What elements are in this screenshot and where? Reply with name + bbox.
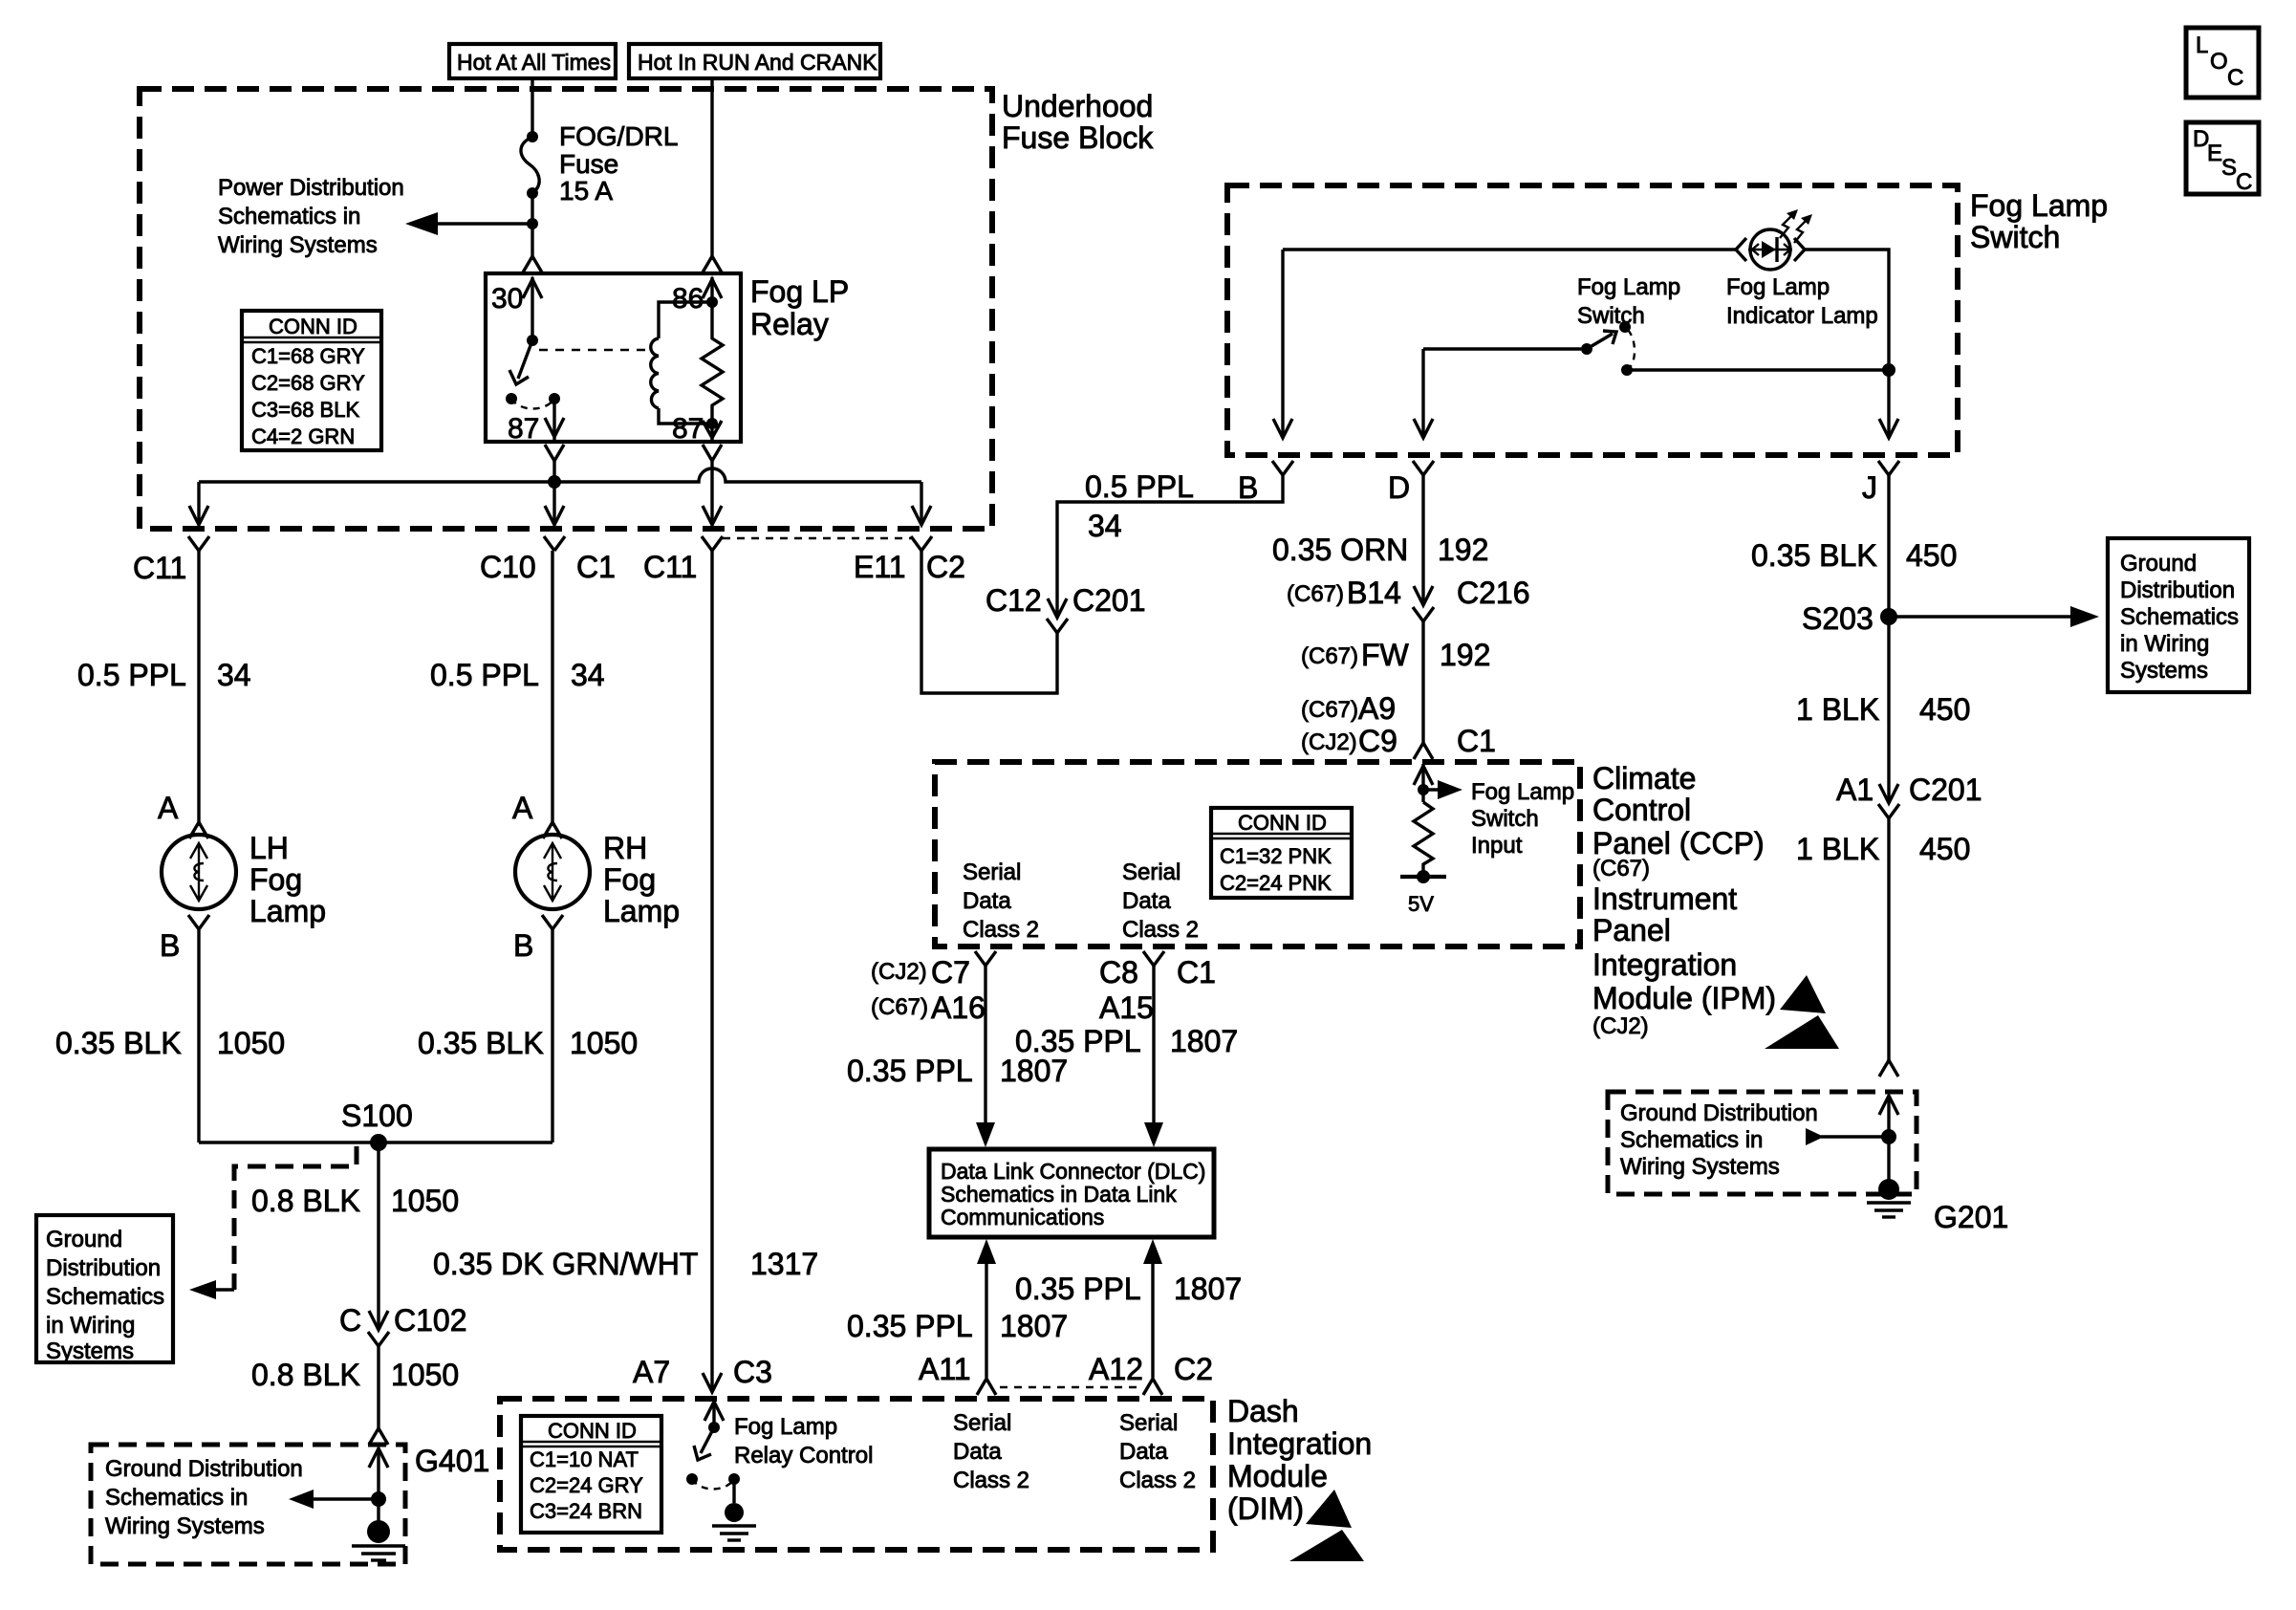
svg-text:1050: 1050 <box>391 1184 459 1218</box>
svg-text:A7: A7 <box>633 1355 670 1389</box>
svg-text:Input: Input <box>1471 833 1523 859</box>
svg-text:Class 2: Class 2 <box>1119 1468 1196 1493</box>
terminal A (RH) <box>512 791 562 838</box>
connector chevron above G401 box <box>369 1428 388 1445</box>
svg-text:L: L <box>2196 33 2208 58</box>
connector A12 / C2 <box>1089 1352 1213 1395</box>
wire bus right drop with down arrow at E11 <box>912 482 931 525</box>
svg-text:192: 192 <box>1438 533 1488 567</box>
svg-text:Class 2: Class 2 <box>963 917 1039 943</box>
switch lever with arrowhead <box>1587 331 1616 349</box>
svg-text:C4=2 GRN: C4=2 GRN <box>251 424 355 448</box>
label Fog Lamp Switch (internal) <box>1577 274 1680 329</box>
svg-text:Systems: Systems <box>46 1338 134 1364</box>
svg-text:C201: C201 <box>1909 772 1982 807</box>
dashed actuation link switch-to-coil <box>539 349 649 351</box>
wire 192 below C216 <box>1421 621 1424 743</box>
arrow branch (points toward wire) <box>1806 1128 1889 1145</box>
relay switch contact right <box>549 393 560 404</box>
svg-text:Fog Lamp: Fog Lamp <box>734 1414 837 1440</box>
wire 0.35 ORN 192 from D <box>1414 475 1433 605</box>
svg-text:Fog Lamp: Fog Lamp <box>1577 274 1680 300</box>
wire C201 to E11 leg <box>921 551 1057 693</box>
label Fog Lamp Relay Control <box>734 1414 873 1469</box>
dashed travel arc <box>692 1479 734 1490</box>
svg-text:0.35 PPL: 0.35 PPL <box>847 1309 973 1343</box>
svg-text:Serial: Serial <box>1122 859 1180 885</box>
svg-text:D: D <box>1388 470 1410 505</box>
label Serial Data Class 2 (CCP left) <box>963 859 1039 943</box>
svg-text:Fog Lamp: Fog Lamp <box>1471 779 1574 805</box>
svg-text:A12: A12 <box>1089 1352 1143 1386</box>
relay switch lever with arrowhead <box>509 340 532 384</box>
svg-text:(C67): (C67) <box>1287 581 1344 607</box>
svg-text:5V: 5V <box>1408 892 1434 916</box>
svg-text:C102: C102 <box>394 1303 467 1338</box>
svg-text:0.5 PPL: 0.5 PPL <box>77 658 186 692</box>
connector C12 C201 (arrow + double chevron) <box>986 583 1146 633</box>
svg-text:FOG/DRL: FOG/DRL <box>559 121 678 151</box>
svg-text:E11: E11 <box>854 550 906 584</box>
ground symbol G401 <box>352 1520 405 1560</box>
dashed travel arc between contacts <box>511 399 554 409</box>
svg-text:Wiring Systems: Wiring Systems <box>218 232 378 258</box>
svg-text:Schematics in: Schematics in <box>218 204 360 229</box>
junction ground branch node <box>1881 1129 1896 1144</box>
CONN ID table (CCP) <box>1211 808 1352 898</box>
connector C C102 (arrow + double chevron) <box>339 1303 467 1346</box>
wire serial data C8 down to DLC with arrow <box>1144 966 1163 1147</box>
dashed pairing line A11 to A12 <box>1000 1386 1139 1388</box>
corner reference box DESC <box>2186 122 2259 195</box>
svg-text:A: A <box>512 791 533 825</box>
terminal B (RH) <box>513 915 563 963</box>
svg-text:Distribution: Distribution <box>46 1255 161 1281</box>
connector E11/C2 <box>854 536 965 584</box>
connector chevron C8 below CCP <box>1143 951 1164 966</box>
svg-text:Wiring Systems: Wiring Systems <box>1620 1154 1780 1180</box>
label box Ground Distribution Schematics in Wiring Systems (right) <box>2108 538 2249 692</box>
connector C10/C1 <box>480 536 616 584</box>
bus wire inside fuse block with hop over relay-control wire <box>199 468 921 482</box>
CONN ID table (DIM) <box>521 1416 661 1533</box>
relay K1 Fog LP Relay (box) <box>486 273 741 442</box>
svg-text:C7: C7 <box>931 955 970 990</box>
svg-text:Integration: Integration <box>1227 1426 1372 1461</box>
svg-text:Systems: Systems <box>2120 658 2208 684</box>
resistor pull-up (CCP) <box>1414 802 1433 877</box>
wire 0.5 PPL 34 to LH fog lamp <box>197 551 200 826</box>
arrow branch to ground schematics (inside G401 box) <box>289 1490 379 1509</box>
svg-text:C1=68 GRY: C1=68 GRY <box>251 344 365 368</box>
pin A9 label <box>1301 691 1396 726</box>
wire coil branch bottom <box>659 408 712 424</box>
svg-text:Fuse: Fuse <box>559 149 618 179</box>
svg-text:87: 87 <box>508 413 539 445</box>
label Ground Distribution Schematics in Wiring Systems (G401 box) <box>105 1456 303 1539</box>
wire serial data A12 up to DLC with arrow <box>1143 1239 1162 1378</box>
label Dash Integration Module (DIM) <box>1227 1394 1372 1526</box>
arrow to ground distribution reference (left) <box>189 1280 234 1299</box>
svg-text:(C67): (C67) <box>871 994 928 1020</box>
junction coil bottom node <box>706 418 718 429</box>
label 0.35 PPL 1807 (upper left) <box>847 1054 1068 1088</box>
svg-text:Indicator Lamp: Indicator Lamp <box>1726 303 1878 329</box>
svg-text:Schematics in: Schematics in <box>105 1485 248 1511</box>
connector chevron below relay pin 87 right <box>703 445 722 461</box>
svg-text:C: C <box>339 1303 361 1338</box>
svg-text:0.5 PPL: 0.5 PPL <box>430 658 539 692</box>
ESD symbol (DIM) <box>1289 1490 1364 1561</box>
label 0.8 BLK 1050 (upper) <box>251 1184 459 1218</box>
label 0.8 BLK 1050 (lower) <box>251 1358 459 1392</box>
svg-text:(C67): (C67) <box>1592 856 1650 881</box>
dashed pairing line C11 to E11 <box>723 537 911 539</box>
svg-text:(CJ2): (CJ2) <box>1592 1013 1649 1039</box>
svg-text:87: 87 <box>672 413 704 445</box>
label 0.35 PPL 1807 (lower left) <box>847 1309 1068 1343</box>
svg-text:Data: Data <box>1122 888 1171 914</box>
svg-text:1 BLK: 1 BLK <box>1796 832 1879 866</box>
splice S203 <box>1802 601 1897 636</box>
wire 0.35 BLK 450 from J <box>1887 475 1890 803</box>
wire entering G401 box with up arrow <box>369 1448 388 1523</box>
wire 0.5 PPL 34 to RH fog lamp <box>551 551 553 826</box>
svg-text:Ground: Ground <box>2120 551 2197 577</box>
svg-text:Schematics: Schematics <box>2120 604 2239 630</box>
svg-text:1050: 1050 <box>217 1026 285 1060</box>
svg-text:86: 86 <box>672 283 704 315</box>
svg-text:0.35 DK GRN/WHT: 0.35 DK GRN/WHT <box>433 1247 698 1281</box>
label 1 BLK 450 (lower) <box>1796 832 1970 866</box>
terminal A (LH) <box>158 791 208 838</box>
dashed travel arc <box>1628 330 1635 367</box>
svg-text:C11: C11 <box>133 551 186 585</box>
arrow down at B exit <box>1273 419 1292 438</box>
svg-text:Instrument: Instrument <box>1592 881 1737 916</box>
connector D <box>1388 461 1434 505</box>
svg-text:O: O <box>2210 49 2228 75</box>
wire pin 87 right exit with down arrow <box>703 421 722 440</box>
svg-text:A9: A9 <box>1358 691 1396 726</box>
label Underhood Fuse Block <box>1002 89 1154 155</box>
arrow to ground distribution reference (right) <box>1889 606 2099 627</box>
label Serial Data Class 2 (DIM right) <box>1119 1410 1196 1493</box>
svg-text:Dash: Dash <box>1227 1394 1299 1428</box>
svg-text:0.35 BLK: 0.35 BLK <box>418 1026 544 1060</box>
svg-text:Distribution: Distribution <box>2120 577 2235 603</box>
svg-text:in Wiring: in Wiring <box>46 1313 135 1338</box>
svg-text:450: 450 <box>1919 832 1970 866</box>
svg-text:450: 450 <box>1919 692 1970 727</box>
svg-text:A1: A1 <box>1836 772 1874 807</box>
svg-text:J: J <box>1862 470 1877 505</box>
svg-text:1317: 1317 <box>750 1247 818 1281</box>
svg-text:450: 450 <box>1906 538 1957 573</box>
svg-text:C2: C2 <box>926 550 965 584</box>
svg-text:34: 34 <box>1088 509 1122 543</box>
module Climate Control Panel (dashed outline) <box>935 762 1580 946</box>
wire indicator to J drop <box>1805 250 1889 438</box>
junction G401 branch node <box>371 1491 386 1507</box>
switch contact upper <box>1619 321 1631 333</box>
svg-text:C1=10 NAT: C1=10 NAT <box>530 1447 639 1471</box>
svg-text:C3=68 BLK: C3=68 BLK <box>251 398 359 422</box>
label 0.35 ORN 192 <box>1272 533 1488 567</box>
CONN ID table (underhood) <box>242 311 381 450</box>
svg-text:1050: 1050 <box>570 1026 638 1060</box>
corner reference box LOC <box>2186 28 2259 98</box>
svg-text:C8: C8 <box>1099 955 1138 990</box>
svg-text:C11: C11 <box>643 550 697 584</box>
wire bus left drop with down arrow at C11 <box>189 482 208 525</box>
svg-text:34: 34 <box>217 658 251 692</box>
fog lamp relay control driver switch: entry arrow <box>704 1402 724 1427</box>
arrow to Fog Lamp Switch Input <box>1423 780 1462 799</box>
connector C8 / C1 labels <box>1099 955 1216 990</box>
label 0.35 BLK 450 <box>1751 538 1957 573</box>
svg-text:Switch: Switch <box>1577 303 1645 329</box>
terminal B (LH) <box>160 915 209 963</box>
svg-text:C: C <box>2236 169 2252 195</box>
svg-text:A11: A11 <box>919 1352 971 1386</box>
svg-text:30: 30 <box>491 283 523 315</box>
splice S100 <box>341 1099 413 1151</box>
wire relay-control drop with down arrow at C11 <box>703 506 722 525</box>
svg-text:CONN ID: CONN ID <box>269 315 357 338</box>
ESD symbol (CCP) <box>1765 975 1839 1049</box>
svg-text:C3=24 BRN: C3=24 BRN <box>530 1499 642 1523</box>
svg-text:1807: 1807 <box>1170 1024 1238 1058</box>
svg-text:0.35 PPL: 0.35 PPL <box>1015 1024 1141 1058</box>
driver switch pivot <box>708 1422 720 1433</box>
svg-text:S203: S203 <box>1802 601 1874 636</box>
pin B14 / connector C216 labels <box>1287 576 1530 610</box>
5V supply terminal <box>1400 870 1446 916</box>
svg-text:Underhood: Underhood <box>1002 89 1153 123</box>
lamp fog lamp indicator (symbol) <box>1736 229 1805 270</box>
svg-text:Power Distribution: Power Distribution <box>218 175 404 201</box>
relay resistor R1 <box>702 302 723 424</box>
svg-text:Schematics: Schematics <box>46 1284 164 1310</box>
svg-text:Integration: Integration <box>1592 947 1737 982</box>
label Power Distribution Schematics in Wiring Systems <box>218 175 404 258</box>
svg-text:Fog: Fog <box>249 862 302 897</box>
svg-text:0.8 BLK: 0.8 BLK <box>251 1184 360 1218</box>
svg-text:S: S <box>2221 155 2237 181</box>
wire pin 86 entry with up arrow <box>703 277 722 302</box>
svg-text:34: 34 <box>571 658 605 692</box>
wire Hot In RUN feed to relay pin 86 <box>710 78 713 260</box>
wire bus middle drop with down arrow at C10 <box>545 482 564 525</box>
svg-text:CONN ID: CONN ID <box>1238 811 1327 835</box>
label Fog Lamp Switch (title) <box>1970 188 2108 254</box>
svg-text:Serial: Serial <box>963 859 1021 885</box>
label Fog Lamp Switch Input <box>1471 779 1574 859</box>
relay coil L1 <box>651 338 659 408</box>
svg-text:A16: A16 <box>931 990 986 1025</box>
connector chevron at relay pin 86 <box>703 256 722 272</box>
connector J <box>1862 461 1899 505</box>
svg-text:A15: A15 <box>1099 990 1154 1025</box>
svg-text:Module (IPM): Module (IPM) <box>1592 981 1776 1015</box>
label 0.5 PPL 34 (LH) <box>77 658 251 692</box>
svg-text:Relay Control: Relay Control <box>734 1443 873 1469</box>
label LH Fog Lamp <box>249 831 326 928</box>
svg-text:Ground Distribution: Ground Distribution <box>105 1456 303 1482</box>
lamp RH Fog Lamp <box>515 835 590 909</box>
fuse F1 FOG/DRL 15A <box>521 131 539 199</box>
svg-text:Schematics in Data Link: Schematics in Data Link <box>941 1182 1177 1207</box>
connector chevron above CCP entry <box>1414 743 1433 759</box>
svg-text:Data: Data <box>963 888 1011 914</box>
relay switch contact left <box>506 393 517 404</box>
junction input node <box>1418 784 1429 795</box>
svg-text:1807: 1807 <box>1174 1272 1242 1306</box>
wire B drop from top run <box>1281 250 1284 438</box>
connector C11 (relay control) <box>643 536 723 584</box>
wire fuse output <box>531 193 533 260</box>
svg-text:Class 2: Class 2 <box>953 1468 1029 1493</box>
svg-text:15 A: 15 A <box>559 176 613 206</box>
svg-text:LH: LH <box>249 831 289 865</box>
svg-text:C1: C1 <box>576 550 616 584</box>
svg-text:0.8 BLK: 0.8 BLK <box>251 1358 360 1392</box>
svg-text:Serial: Serial <box>1119 1410 1178 1436</box>
svg-text:Data Link Connector (DLC): Data Link Connector (DLC) <box>941 1159 1205 1184</box>
label RH Fog Lamp <box>603 831 680 928</box>
svg-text:C2=68 GRY: C2=68 GRY <box>251 371 365 395</box>
wire 0.5 PPL 34 from B to C201 <box>1057 475 1283 615</box>
svg-text:G401: G401 <box>415 1444 489 1478</box>
ground reference box (dashed, right) <box>1608 1092 1917 1194</box>
label Serial Data Class 2 (DIM left) <box>953 1410 1029 1493</box>
svg-text:(DIM): (DIM) <box>1227 1491 1304 1526</box>
svg-text:0.35 BLK: 0.35 BLK <box>55 1026 182 1060</box>
node Hot At All Times <box>449 44 616 78</box>
label Serial Data Class 2 (CCP right) <box>1122 859 1199 943</box>
svg-text:Serial: Serial <box>953 1410 1011 1436</box>
driver switch lever with arrowhead <box>694 1427 714 1460</box>
wire serial data C7 down to DLC with arrow <box>976 966 995 1147</box>
connector chevron at relay pin 30 <box>523 256 542 272</box>
junction fuse output node <box>527 218 538 229</box>
svg-text:1807: 1807 <box>1000 1309 1068 1343</box>
connector C7 pin labels <box>871 955 970 990</box>
label 0.35 BLK 1050 (LH) <box>55 1026 285 1060</box>
node Hot In RUN And CRANK <box>629 44 880 78</box>
light rays on indicator lamp <box>1780 209 1812 243</box>
label 0.35 BLK 1050 (RH) <box>418 1026 638 1060</box>
svg-text:(CJ2): (CJ2) <box>871 959 927 985</box>
svg-text:E: E <box>2207 141 2222 166</box>
wire 0.8 BLK 1050 lower <box>377 1346 379 1428</box>
relay switch pivot <box>527 335 538 346</box>
svg-text:0.35 PPL: 0.35 PPL <box>1015 1272 1141 1306</box>
wire 0.35 BLK 1050 (RH) <box>551 929 553 1142</box>
label Climate Control Panel (CCP) (C67) Instrument Panel Integration Module (IPM) (CJ2) <box>1592 761 1776 1039</box>
label Fog Lamp Indicator Lamp <box>1726 274 1878 329</box>
svg-text:Relay: Relay <box>750 307 829 341</box>
pin C9 / connector C1 labels <box>1301 724 1496 758</box>
wire 87-right down crossing bus <box>710 461 713 525</box>
svg-text:B: B <box>160 928 180 963</box>
label 0.35 PPL 1807 (lower right) <box>1015 1272 1242 1306</box>
svg-text:Switch: Switch <box>1970 220 2060 254</box>
wire switch lower contact to J wire <box>1627 368 1889 371</box>
svg-text:Module: Module <box>1227 1459 1328 1493</box>
svg-text:Control: Control <box>1592 793 1691 827</box>
driver switch contact left <box>686 1473 698 1485</box>
junction on J wire <box>1882 363 1895 377</box>
svg-text:Data: Data <box>1119 1439 1168 1465</box>
svg-text:Lamp: Lamp <box>249 894 326 928</box>
svg-text:Ground Distribution: Ground Distribution <box>1620 1100 1818 1126</box>
svg-text:1050: 1050 <box>391 1358 459 1392</box>
svg-text:C1: C1 <box>1177 955 1216 990</box>
svg-text:C2=24 PNK: C2=24 PNK <box>1220 871 1332 895</box>
connector A11 <box>919 1352 996 1395</box>
reference box Data Link Connector (DLC) <box>929 1149 1214 1237</box>
label 0.5 PPL 34 (B wire) <box>1085 469 1194 543</box>
wire coil branch top <box>659 302 712 338</box>
svg-text:C3: C3 <box>733 1355 772 1389</box>
svg-text:C201: C201 <box>1072 583 1146 618</box>
svg-text:G201: G201 <box>1934 1200 2008 1234</box>
pin A7 / connector C3 labels <box>633 1355 772 1389</box>
svg-text:0.5 PPL: 0.5 PPL <box>1085 469 1194 504</box>
svg-text:in Wiring: in Wiring <box>2120 631 2209 657</box>
svg-text:S100: S100 <box>341 1099 413 1133</box>
svg-text:Data: Data <box>953 1439 1002 1465</box>
connector A1 C201 (arrow + double chevron) <box>1836 772 1982 818</box>
svg-text:C216: C216 <box>1457 576 1530 610</box>
wire CCP input entry with up arrow <box>1414 764 1433 802</box>
wire 0.8 BLK 1050 from S100 <box>377 1142 379 1327</box>
ground symbol (DIM internal) <box>712 1503 756 1540</box>
svg-text:(C67): (C67) <box>1301 643 1358 669</box>
svg-text:Class 2: Class 2 <box>1122 917 1199 943</box>
module Dash Integration Module (dashed outline) <box>500 1399 1213 1550</box>
switch contact lower <box>1621 364 1633 376</box>
svg-text:Communications: Communications <box>941 1205 1104 1229</box>
svg-text:C: C <box>2227 65 2243 91</box>
connector C216 (double chevron) <box>1413 607 1434 621</box>
label 0.35 PPL 1807 (upper right) <box>1015 1024 1238 1058</box>
svg-text:C2: C2 <box>1174 1352 1213 1386</box>
lamp LH Fog Lamp <box>162 835 236 909</box>
svg-text:Schematics in: Schematics in <box>1620 1127 1763 1153</box>
svg-text:1 BLK: 1 BLK <box>1796 692 1879 727</box>
pin A16 label <box>871 990 986 1025</box>
module Fog Lamp Switch (dashed outline) <box>1227 185 1958 455</box>
svg-text:C12: C12 <box>986 583 1042 618</box>
svg-text:B: B <box>1238 470 1258 505</box>
svg-text:Hot In RUN And CRANK: Hot In RUN And CRANK <box>638 50 877 75</box>
svg-text:Wiring Systems: Wiring Systems <box>105 1513 265 1539</box>
connector chevron above ground ref box <box>1879 1060 1898 1077</box>
svg-text:A: A <box>158 791 179 825</box>
wire to internal ground <box>732 1479 735 1503</box>
svg-text:B: B <box>513 928 533 963</box>
module Underhood Fuse Block (dashed outline) <box>140 89 992 529</box>
label FOG/DRL Fuse 15 A <box>559 121 678 206</box>
ground reference box G401 (dashed) <box>91 1445 405 1564</box>
svg-text:C1=32 PNK: C1=32 PNK <box>1220 844 1332 868</box>
svg-text:Hot At All Times: Hot At All Times <box>457 50 611 75</box>
label box Ground Distribution Schematics in Wiring Systems (left) <box>36 1215 173 1364</box>
wire battery feed to fuse <box>531 78 533 137</box>
